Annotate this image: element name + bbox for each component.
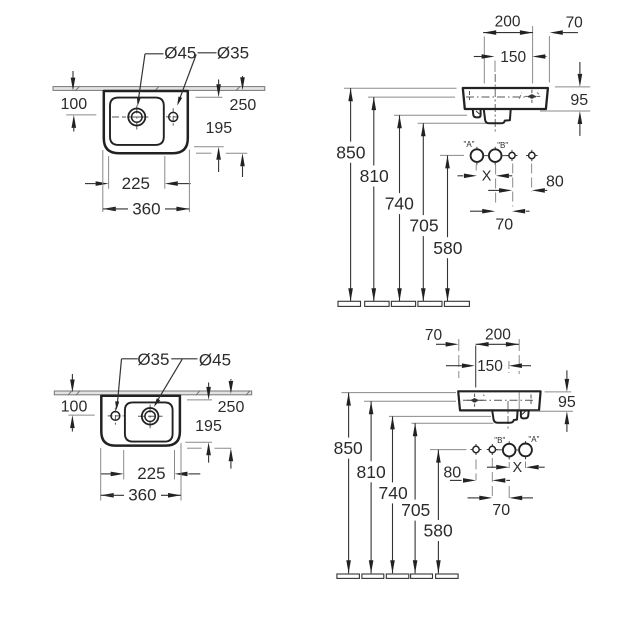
- q3 small hole 35mm: [111, 412, 120, 421]
- svg-text:80: 80: [443, 465, 461, 482]
- q4 drain centerline: [507, 401, 509, 431]
- q4 chain dim 740: [378, 416, 407, 573]
- q1 extension lines for dim 225: [109, 156, 165, 189]
- q1 extension line inner bottom edge: [194, 146, 224, 148]
- q1 extension line inner top edge: [196, 96, 223, 98]
- svg-text:"B": "B": [497, 141, 508, 150]
- svg-text:225: 225: [122, 174, 150, 193]
- q3 small hole crosshair: [108, 408, 124, 425]
- q3 basin inner bowl: [125, 402, 173, 441]
- q2 dim 70: [550, 14, 583, 35]
- q3 dim 225: [101, 464, 200, 483]
- q2 reference line 580 level (mounting holes): [440, 154, 464, 156]
- svg-text:850: 850: [334, 438, 363, 458]
- q4 waterline dash-dot inside body: [463, 399, 536, 401]
- svg-text:95: 95: [570, 92, 588, 109]
- q2 fixing hole small right: [526, 150, 537, 161]
- q3 wall line: [54, 391, 251, 396]
- q2 mounting hole A label: [463, 140, 474, 149]
- q3 tap hole crosshair: [138, 405, 163, 429]
- q1 dim 195 (inner bowl depth): [205, 80, 232, 173]
- q2 chain dim 705: [409, 123, 438, 301]
- svg-text:810: 810: [356, 462, 385, 482]
- q3 extension line outer bottom edge: [187, 447, 231, 449]
- q4 mounting hole A label: [528, 435, 539, 444]
- q2 dim 80: [488, 174, 564, 193]
- svg-text:"A": "A": [463, 140, 474, 149]
- q2 reference line 810 level: [368, 96, 455, 98]
- q1 small hole 35mm: [169, 112, 178, 121]
- svg-text:195: 195: [195, 418, 222, 435]
- q4 dim 200: [476, 327, 519, 347]
- svg-text:740: 740: [385, 194, 414, 214]
- q3 label diameter 35: [137, 350, 169, 369]
- q2 body left tick: [469, 91, 471, 100]
- q1 basin outer outline: [104, 91, 188, 153]
- q3 label diameter 45: [199, 350, 231, 369]
- q2 dim 200: [483, 14, 533, 35]
- q2 mounting hole A: [471, 147, 484, 165]
- q2 mounting hole B label: [497, 141, 508, 150]
- svg-text:Ø35: Ø35: [137, 350, 169, 369]
- q1 extension line outer bottom edge: [196, 152, 247, 154]
- q4 fixing hole small left: [471, 444, 482, 455]
- svg-text:X: X: [512, 460, 522, 476]
- svg-text:100: 100: [60, 96, 87, 113]
- svg-text:705: 705: [409, 216, 438, 236]
- q1 label diameter 45: [164, 44, 196, 63]
- q2 chain dim 810: [360, 97, 389, 301]
- svg-text:70: 70: [425, 327, 443, 344]
- svg-text:Ø45: Ø45: [164, 44, 196, 63]
- q4 hole row connector lines: [496, 449, 519, 451]
- svg-text:580: 580: [433, 238, 462, 258]
- q4 fixing hole small right: [487, 444, 498, 455]
- svg-text:100: 100: [61, 398, 88, 415]
- q2 fixing hole small left: [507, 150, 518, 161]
- q4 basin body side view: [458, 391, 540, 410]
- q4 reference line 580 level: [430, 449, 467, 451]
- svg-text:360: 360: [128, 486, 156, 505]
- q4 chain dim 810: [356, 401, 385, 573]
- q3 extension line inner bottom edge: [185, 441, 212, 443]
- q4 reference line 705 level: [411, 422, 493, 424]
- q4 chain dim 850: [334, 393, 363, 574]
- q2 dim 70 lower: [470, 209, 530, 233]
- q2 waterline dash-dot inside body: [466, 96, 536, 98]
- q4 mounting hole B label: [494, 436, 505, 445]
- q4 extension dashes below holes: [476, 458, 526, 498]
- svg-text:X: X: [482, 169, 492, 185]
- q1 label connector line: [198, 52, 217, 54]
- q2 basin body side view: [463, 88, 548, 109]
- q3 label connector line: [171, 358, 197, 360]
- q4 reference line 850 level: [342, 392, 457, 394]
- q2 dim 95: [540, 62, 590, 136]
- svg-text:200: 200: [485, 327, 511, 344]
- svg-text:70: 70: [566, 14, 584, 31]
- q4 overflow hole mark: [467, 394, 484, 407]
- q2 faucet centerline: [494, 74, 496, 134]
- q3 tap hole 45mm: [142, 408, 159, 425]
- q2 chain dim 740: [385, 115, 414, 301]
- q4 drain outlet: [492, 410, 517, 422]
- q1 leader to small hole: [177, 55, 196, 106]
- q4 reference line 740 level: [389, 415, 491, 417]
- q1 small hole crosshair: [166, 108, 181, 125]
- q3 basin outer outline: [101, 396, 180, 446]
- svg-text:705: 705: [401, 500, 430, 520]
- q4 dim 95: [530, 370, 576, 432]
- svg-text:70: 70: [492, 502, 510, 519]
- q4 mounting hole A: [519, 441, 532, 459]
- svg-text:"A": "A": [528, 435, 539, 444]
- q3 extension lines for dim 225: [124, 450, 175, 479]
- svg-text:Ø45: Ø45: [199, 350, 231, 369]
- q3 hole centerline extension (100 dim reference): [68, 414, 94, 416]
- q2 dim X (hole A to B): [458, 169, 513, 185]
- q3 leader to tap hole: [154, 359, 182, 407]
- q3 extension lines for dim 360: [101, 443, 181, 501]
- q3 dim 195: [195, 383, 222, 463]
- q2 mounting hole B: [489, 147, 502, 165]
- q3 dim 250: [218, 379, 245, 469]
- svg-text:95: 95: [558, 394, 576, 411]
- q1 extension lines for dim 360: [103, 150, 190, 212]
- q4 reference line 810 level: [364, 400, 456, 402]
- q4 dim X: [487, 460, 545, 476]
- q1 dim 250 (overall depth): [230, 76, 257, 177]
- svg-text:70: 70: [495, 216, 513, 233]
- q4 drain hook tab: [521, 411, 529, 419]
- q4 extension lines from top dims to body: [459, 339, 519, 409]
- q4 dim 150: [446, 358, 531, 375]
- q2 hole row connector lines: [484, 155, 509, 157]
- q1 basin inner bowl: [110, 98, 164, 145]
- q1 dim 225 (bowl width): [85, 174, 191, 193]
- svg-text:150: 150: [500, 49, 526, 66]
- q2 extension dashes below holes: [476, 164, 531, 207]
- q2 reference line 705 level: [418, 122, 487, 124]
- q1 dim 360 (overall width): [103, 199, 190, 218]
- q4 floor line segments: [337, 574, 458, 578]
- q2 extension lines from top dims to body: [484, 26, 549, 84]
- q2 dim 150: [474, 49, 547, 66]
- svg-text:80: 80: [546, 174, 564, 191]
- q3 dim 100: [61, 374, 88, 432]
- q4 dim 70 top: [425, 327, 459, 346]
- q1 leader to tap hole: [137, 54, 164, 106]
- q2 drain hook tab: [473, 110, 481, 118]
- q1 dim 100 (wall to tap hole center): [60, 71, 87, 132]
- q2 overflow hole mark: [519, 90, 540, 103]
- svg-text:810: 810: [360, 166, 389, 186]
- q4 dim 70 lower: [468, 496, 534, 519]
- q4 mounting hole B: [503, 441, 516, 459]
- q3 dim 360: [101, 486, 181, 505]
- q1 tap hole crosshair: [112, 106, 148, 130]
- q1 label diameter 35: [217, 44, 249, 63]
- svg-text:360: 360: [132, 199, 160, 218]
- q4 dim 80: [443, 465, 510, 483]
- svg-text:200: 200: [495, 14, 521, 31]
- svg-text:850: 850: [336, 142, 365, 162]
- q2 chain dim 850: [336, 88, 365, 301]
- q3 extension line inner top edge: [187, 399, 212, 401]
- svg-text:150: 150: [477, 358, 503, 375]
- q4 body right tick: [530, 395, 532, 405]
- q1 hole centerline extension (100 dim reference): [66, 114, 96, 116]
- q4 chain dim 705: [401, 423, 430, 573]
- q2 reference line 850 level (rim): [344, 87, 457, 89]
- q2 floor line segments: [338, 301, 469, 306]
- svg-text:"B": "B": [494, 436, 505, 445]
- q3 leader to small hole: [115, 359, 138, 411]
- svg-text:580: 580: [423, 521, 452, 541]
- q1 wall line: [53, 86, 265, 91]
- svg-text:195: 195: [205, 120, 232, 137]
- q2 reference line 740 level: [394, 114, 467, 116]
- q4 chain dim 580: [423, 450, 452, 574]
- svg-text:250: 250: [218, 399, 245, 416]
- svg-text:225: 225: [137, 464, 165, 483]
- q2 drain outlet: [484, 109, 511, 123]
- svg-text:250: 250: [230, 97, 257, 114]
- q1 tap hole 45mm: [128, 109, 145, 126]
- q2 chain dim 580: [433, 155, 462, 301]
- svg-text:Ø35: Ø35: [217, 44, 249, 63]
